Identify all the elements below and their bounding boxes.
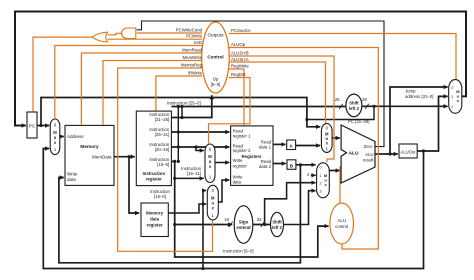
wire MemtoReg to MemtoReg mux select	[118, 68, 213, 251]
slash 32	[261, 222, 265, 227]
slash 16	[229, 222, 233, 227]
gate AND (PCWriteCond and Zero)	[121, 28, 135, 39]
svg-text:ALU: ALU	[337, 218, 346, 223]
svg-text:result: result	[363, 158, 374, 163]
svg-text:RegDst: RegDst	[231, 72, 246, 77]
wire Instruction[15-11] to RegDst mux input 1	[175, 177, 204, 179]
svg-text:[25–21]: [25–21]	[155, 132, 169, 137]
svg-text:Write: Write	[67, 172, 78, 177]
svg-text:data: data	[67, 177, 76, 182]
svg-text:ALU: ALU	[365, 152, 373, 157]
wire B register to ALUSrcB mux input 0	[296, 164, 316, 166]
slash 28	[365, 104, 369, 109]
svg-text:MemtoReg: MemtoReg	[181, 63, 203, 68]
registers block	[231, 126, 273, 185]
svg-text:Sign: Sign	[239, 220, 249, 225]
wire PC[31-28] branch to jump address junction	[307, 107, 374, 119]
wire IRWrite to Instruction register	[156, 76, 202, 111]
wire Instruction[25-21] from IR to Read register 1	[171, 131, 229, 133]
svg-text:PC [31–28]: PC [31–28]	[348, 119, 370, 124]
svg-text:RegWrite: RegWrite	[231, 64, 249, 69]
wire constant 4 to ALUSrcB mux input 1	[311, 174, 316, 176]
wire ALUOp to ALU control	[229, 48, 378, 250]
svg-text:register: register	[146, 177, 162, 182]
wire sign extend output to shift left 2	[253, 224, 271, 226]
node bus dot e	[180, 105, 183, 108]
svg-text:[5–0]: [5–0]	[211, 82, 221, 87]
svg-text:address [31–0]: address [31–0]	[405, 94, 433, 99]
wire MemData to instruction register	[114, 156, 135, 158]
svg-text:PCSource: PCSource	[231, 28, 251, 33]
memory unit	[65, 125, 114, 185]
wire ALUOut feedback riser to MemtoReg mux input 0	[203, 191, 206, 269]
svg-text:data 2: data 2	[259, 164, 272, 169]
node ALU result junction	[388, 152, 391, 155]
svg-text:ALUSrcB: ALUSrcB	[231, 51, 249, 56]
svg-text:Address: Address	[67, 134, 84, 139]
svg-text:MemWrite: MemWrite	[183, 55, 203, 60]
wire PC output to IorD mux input 0	[37, 125, 49, 127]
svg-text:Control: Control	[207, 55, 223, 60]
svg-text:Instruction [25–0]: Instruction [25–0]	[167, 100, 201, 105]
svg-text:left 2: left 2	[272, 225, 282, 230]
svg-text:ALUOp: ALUOp	[231, 42, 246, 47]
svg-text:1: 1	[319, 173, 321, 178]
wire Instruction[25-0] lane from IR to shift left 2	[171, 106, 346, 108]
svg-text:3: 3	[319, 188, 321, 193]
register B	[287, 160, 296, 170]
svg-text:[15–11]: [15–11]	[187, 171, 201, 176]
node instr sign extend tap	[173, 223, 176, 226]
svg-text:MemData: MemData	[92, 155, 112, 160]
svg-text:16: 16	[224, 217, 229, 222]
mux PCSource M6	[449, 80, 462, 114]
svg-text:28: 28	[362, 97, 367, 102]
wire Instruction[15-0] from IR down the side bus	[171, 161, 328, 257]
wire AND gate output to OR gate input	[108, 33, 122, 35]
memory data register MDR	[141, 203, 168, 237]
wire B register loop to Memory write data	[59, 165, 301, 263]
wire instruction bus vertical second	[181, 107, 183, 118]
svg-text:Zero: Zero	[364, 144, 373, 149]
svg-text:1: 1	[451, 94, 453, 99]
node instr 15-11 tap	[173, 177, 176, 180]
node bus dot b	[177, 130, 180, 133]
node instr 15-0 tap	[173, 160, 176, 163]
wire MemRead to Memory	[81, 53, 202, 125]
svg-text:Instruction: Instruction	[142, 171, 165, 176]
wire RegDst mux output to Write register	[215, 162, 229, 164]
node ALUOut output junction	[422, 149, 425, 152]
wire ALUSrcB mux output to ALU input B	[329, 170, 340, 172]
node PC lane branch junction	[305, 118, 308, 121]
node MemData junction	[127, 155, 130, 158]
svg-text:ALUSrcA: ALUSrcA	[231, 57, 249, 62]
wire PC write feedback from PCSource mux around top to PC input	[15, 12, 466, 126]
slash 26	[339, 104, 343, 109]
svg-text:2: 2	[451, 104, 453, 109]
wire PCWriteCond to AND gate	[137, 32, 202, 34]
wire PCWrite to OR gate	[108, 38, 203, 40]
wire IorD mux output to Memory address	[60, 136, 64, 138]
wire Instruction[20-16] from IR to Read register 2	[171, 146, 229, 148]
svg-text:left 2: left 2	[349, 106, 359, 111]
node B output junction	[299, 163, 302, 166]
wire jump address lane to PCSource mux input 2	[362, 105, 448, 107]
wire sign extend output to ALUSrcB mux input 2	[265, 183, 316, 225]
alu control oval U3	[330, 203, 354, 244]
wire MDR output to MemtoReg mux input 1	[168, 204, 206, 213]
svg-text:ALU: ALU	[349, 150, 359, 156]
wire Zero from ALU up and left to AND gate	[137, 21, 384, 147]
wire RegWrite to Registers	[229, 69, 244, 125]
svg-text:Instruction [5–0]: Instruction [5–0]	[223, 249, 254, 254]
node bus dot a	[177, 105, 180, 108]
svg-text:Outputs: Outputs	[207, 33, 224, 38]
svg-text:register: register	[147, 223, 163, 228]
svg-text:PCWrite: PCWrite	[186, 34, 203, 39]
wire OR gate output to PC write enable	[33, 37, 92, 111]
wire ALUSrcB to ALUSrcB mux select	[229, 56, 334, 162]
mux IorD M1	[50, 119, 60, 155]
node bus dot c	[177, 145, 180, 148]
node sign extend output junction	[263, 223, 266, 226]
wire MemWrite to Memory	[103, 61, 202, 125]
node bus dot f	[180, 116, 183, 119]
svg-text:Shift: Shift	[349, 101, 359, 106]
wire MemtoReg mux output to Registers write data	[218, 180, 229, 202]
svg-text:register 1: register 1	[233, 134, 252, 139]
svg-text:[31–26]: [31–26]	[155, 117, 169, 122]
svg-text:register 2: register 2	[233, 148, 252, 153]
node bus dot d	[177, 160, 180, 163]
sign extend oval	[234, 206, 253, 244]
wire ALU result riser to PCSource mux input 0	[390, 87, 448, 154]
wire Instruction[20-16] branch to RegDst mux input 0	[196, 147, 204, 151]
svg-text:data 1: data 1	[259, 145, 272, 150]
register A	[287, 140, 296, 150]
wire ALUSrcA mux output to ALU input A	[332, 137, 340, 139]
svg-text:Memory: Memory	[80, 144, 99, 150]
wire ALUSrcA to ALUSrcA mux select	[229, 62, 326, 123]
svg-text:[15–0]: [15–0]	[157, 162, 169, 167]
wire shift left 2 output to ALUSrcB mux input 3	[283, 191, 315, 225]
svg-text:Op: Op	[213, 77, 219, 82]
wire Instruction[15-0] branch to sign extend	[175, 224, 233, 226]
svg-text:Shift: Shift	[272, 220, 282, 225]
node instruction 20-16 branch	[194, 145, 197, 148]
wire instruction bus gather vertical	[177, 107, 179, 162]
mux ALUSrcA M4	[321, 124, 332, 153]
shift left 2 oval top	[346, 94, 362, 117]
svg-text:Registers: Registers	[241, 154, 262, 159]
instruction register IR	[136, 111, 171, 186]
wire Read data 1 to A register	[273, 143, 286, 145]
svg-text:[15–0]: [15–0]	[154, 194, 166, 199]
shift left 2 oval bottom	[271, 212, 284, 236]
svg-text:IRWrite: IRWrite	[188, 71, 203, 76]
svg-text:Jump: Jump	[405, 89, 416, 94]
wire Instruction[31-26] from IR to Control op input	[171, 95, 211, 117]
svg-text:extend: extend	[236, 225, 250, 230]
register ALUOut	[399, 144, 417, 158]
svg-text:Memory: Memory	[146, 211, 163, 216]
wire Read data 2 to B register	[273, 163, 286, 165]
svg-text:MemRead: MemRead	[182, 48, 202, 53]
mux ALUSrcB M5	[317, 163, 330, 198]
svg-text:IorD: IorD	[194, 40, 202, 45]
svg-text:2: 2	[319, 181, 321, 186]
svg-text:control: control	[335, 224, 348, 229]
node PC output junction	[39, 124, 42, 127]
wire A register to ALUSrcA mux input 1	[295, 145, 320, 147]
node jump address junction	[372, 105, 375, 108]
svg-text:data: data	[233, 180, 242, 185]
svg-text:register: register	[233, 163, 248, 168]
svg-text:data: data	[150, 217, 160, 222]
mux RegDst M2	[205, 144, 215, 183]
svg-text:ALUOut: ALUOut	[401, 149, 417, 154]
svg-text:[20–16]: [20–16]	[155, 147, 169, 152]
svg-text:PCWriteCond: PCWriteCond	[176, 28, 203, 33]
wire PC output up to PC lane toward ALUSrcA mux and PC[31-28]	[41, 98, 320, 127]
wire ALUOut output to PCSource mux input 1	[417, 96, 448, 151]
alu U2	[341, 125, 375, 183]
svg-text:PC: PC	[29, 123, 36, 128]
wire ALUOut feedback bottom loop to IorD mux input 1	[43, 149, 423, 269]
gate OR (branch or PCWrite)	[92, 32, 107, 42]
wire PCSource to PCSource mux select	[229, 34, 456, 80]
register PC	[27, 112, 37, 138]
wire ALU result to ALUOut register	[375, 153, 398, 155]
wire IorD to IorD mux select	[55, 46, 202, 119]
mux MemtoReg M3	[207, 185, 218, 220]
svg-text:26: 26	[335, 97, 340, 102]
wire MemData to memory data register	[129, 157, 139, 213]
control unit oval U1	[202, 22, 230, 93]
node ALUOut bottom lane junction	[201, 267, 204, 270]
wire RegDst to RegDst mux select	[209, 78, 251, 144]
wire ALU control output to ALU	[340, 167, 360, 203]
svg-text:32: 32	[257, 217, 262, 222]
